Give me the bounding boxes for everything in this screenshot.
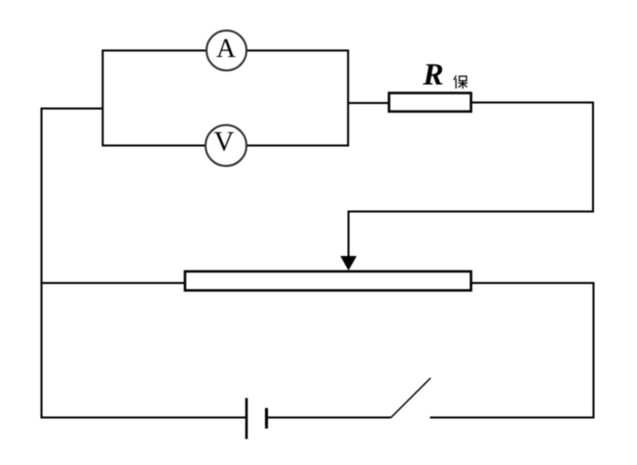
svg-text:A: A <box>216 33 236 63</box>
svg-text:R: R <box>422 57 444 92</box>
svg-text:V: V <box>214 127 234 158</box>
